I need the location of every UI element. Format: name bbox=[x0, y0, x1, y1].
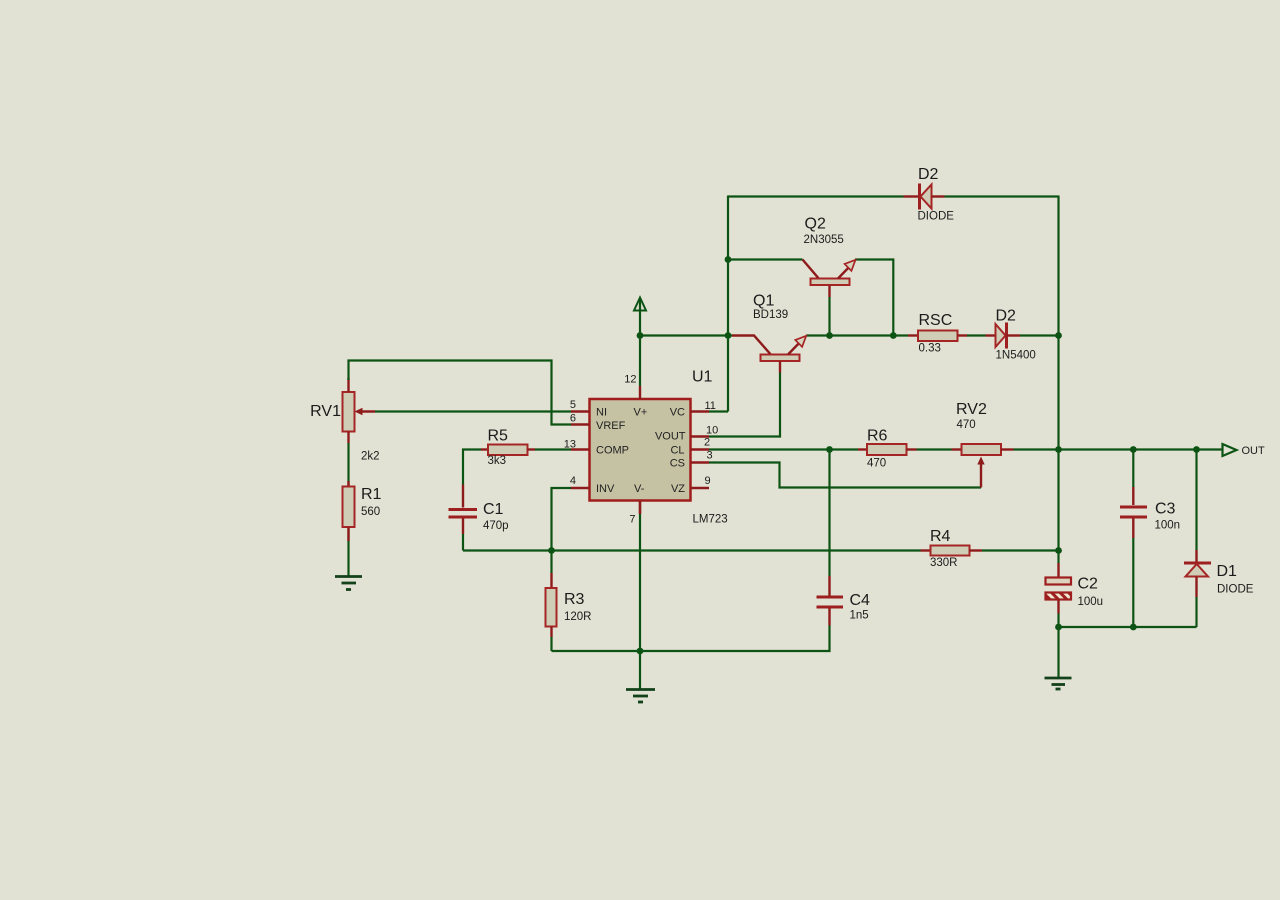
pin 5 stub bbox=[570, 399, 590, 412]
resistor R4 bbox=[921, 528, 983, 569]
pin 9 stub bbox=[691, 475, 711, 488]
svg-text:C2: C2 bbox=[1078, 576, 1099, 593]
svg-text:VREF: VREF bbox=[596, 420, 626, 432]
svg-text:1N5400: 1N5400 bbox=[996, 350, 1036, 362]
svg-text:11: 11 bbox=[705, 400, 716, 412]
wire VOUT to Q1 base bbox=[709, 373, 780, 437]
svg-text:100n: 100n bbox=[1155, 520, 1181, 532]
svg-text:COMP: COMP bbox=[596, 445, 629, 457]
svg-text:D2: D2 bbox=[996, 308, 1017, 325]
svg-text:R3: R3 bbox=[564, 591, 585, 608]
svg-text:DIODE: DIODE bbox=[1217, 584, 1254, 596]
wire mid row bbox=[463, 549, 1059, 551]
capacitor C2 bbox=[1046, 563, 1104, 614]
svg-text:D1: D1 bbox=[1217, 563, 1238, 580]
potentiometer RV2 bbox=[952, 401, 1014, 488]
pin 12 stub bbox=[624, 374, 640, 400]
capacitor C4 bbox=[817, 576, 871, 626]
svg-text:VC: VC bbox=[670, 407, 685, 419]
svg-text:RSC: RSC bbox=[919, 312, 953, 329]
svg-text:2N3055: 2N3055 bbox=[804, 234, 844, 246]
pin 6 stub bbox=[570, 413, 590, 425]
svg-text:U1: U1 bbox=[692, 369, 713, 386]
wire left vertical rail bbox=[727, 196, 729, 412]
wire CS to RV2 wiper bbox=[709, 463, 981, 488]
wire top rail to D2 bbox=[728, 195, 1059, 197]
svg-text:7: 7 bbox=[629, 514, 635, 526]
svg-text:VOUT: VOUT bbox=[655, 431, 686, 443]
wire CL output row bbox=[709, 448, 1223, 450]
power flag V+ bbox=[634, 298, 646, 336]
wire Q2 base row bbox=[728, 258, 803, 260]
wire RV1 to R1 to ground bbox=[347, 443, 349, 576]
wire bottom row bbox=[552, 626, 830, 652]
IC U1 LM723 bbox=[590, 369, 728, 526]
wire bottom right row bbox=[1059, 626, 1197, 628]
svg-text:R1: R1 bbox=[361, 486, 382, 503]
svg-text:NI: NI bbox=[596, 407, 607, 419]
svg-text:560: 560 bbox=[361, 506, 380, 518]
svg-text:5: 5 bbox=[570, 399, 576, 411]
resistor R5 bbox=[481, 428, 535, 468]
svg-text:1n5: 1n5 bbox=[850, 610, 869, 622]
svg-text:C1: C1 bbox=[483, 501, 504, 518]
terminal OUT bbox=[1223, 444, 1266, 457]
diode D2 (top) bbox=[904, 166, 955, 223]
svg-text:3k3: 3k3 bbox=[488, 455, 507, 467]
pin 10 stub bbox=[691, 425, 719, 437]
svg-text:10: 10 bbox=[706, 425, 718, 437]
svg-text:470p: 470p bbox=[483, 520, 509, 532]
svg-text:DIODE: DIODE bbox=[918, 211, 955, 223]
svg-text:4: 4 bbox=[570, 475, 576, 487]
svg-text:RV1: RV1 bbox=[310, 403, 341, 420]
resistor R1 bbox=[343, 481, 382, 541]
svg-text:INV: INV bbox=[596, 483, 615, 495]
svg-text:R4: R4 bbox=[930, 528, 951, 545]
wire INV down to mid row bbox=[552, 488, 572, 551]
svg-text:R5: R5 bbox=[488, 428, 509, 445]
potentiometer RV1 bbox=[310, 378, 379, 463]
resistor R6 bbox=[858, 428, 917, 470]
transistor Q2 bbox=[803, 216, 856, 336]
svg-text:CS: CS bbox=[670, 458, 685, 470]
svg-text:120R: 120R bbox=[564, 611, 592, 623]
svg-text:LM723: LM723 bbox=[693, 514, 728, 526]
svg-text:2k2: 2k2 bbox=[361, 451, 380, 463]
wire V- down to ground bbox=[639, 501, 641, 690]
pin 2 stub bbox=[691, 437, 711, 450]
svg-text:12: 12 bbox=[624, 374, 636, 386]
svg-text:R6: R6 bbox=[867, 428, 888, 445]
svg-text:V+: V+ bbox=[634, 407, 648, 419]
pin 4 stub bbox=[570, 475, 590, 488]
svg-text:9: 9 bbox=[705, 475, 711, 487]
svg-text:VZ: VZ bbox=[671, 483, 685, 495]
svg-text:CL: CL bbox=[670, 445, 684, 457]
svg-text:Q1: Q1 bbox=[753, 293, 774, 310]
svg-text:OUT: OUT bbox=[1242, 445, 1266, 457]
svg-text:2: 2 bbox=[704, 437, 710, 449]
svg-text:330R: 330R bbox=[930, 557, 958, 569]
ground (C2) bbox=[1045, 678, 1072, 689]
resistor R3 bbox=[546, 551, 592, 652]
pin 7 stub bbox=[629, 501, 640, 526]
resistor RSC bbox=[908, 312, 967, 355]
capacitor C3 bbox=[1120, 450, 1180, 628]
diode D2 (1N5400) bbox=[986, 308, 1036, 362]
pin 13 stub bbox=[564, 439, 590, 451]
wire RV1 top to VREF bbox=[349, 361, 572, 425]
svg-text:3: 3 bbox=[707, 450, 713, 462]
pin 11 stub bbox=[691, 400, 716, 412]
svg-text:C3: C3 bbox=[1155, 501, 1176, 518]
pin 3 stub bbox=[691, 450, 713, 463]
svg-text:C4: C4 bbox=[850, 592, 871, 609]
wire V+ to pin 12 bbox=[639, 336, 641, 387]
ground (V-) bbox=[626, 690, 655, 703]
svg-text:V-: V- bbox=[634, 483, 645, 495]
svg-text:6: 6 bbox=[570, 413, 576, 425]
capacitor C1 bbox=[449, 485, 509, 535]
wire right vertical rail bbox=[1057, 196, 1059, 564]
svg-text:RV2: RV2 bbox=[956, 401, 987, 418]
svg-text:100u: 100u bbox=[1078, 596, 1104, 608]
wire main emitter row bbox=[640, 334, 1059, 336]
transistor Q1 bbox=[732, 293, 806, 373]
wire CL row down to C4 bbox=[828, 450, 830, 577]
svg-text:D2: D2 bbox=[918, 166, 939, 183]
wire C2 to ground bbox=[1057, 614, 1059, 678]
svg-text:470: 470 bbox=[957, 419, 976, 431]
svg-text:Q2: Q2 bbox=[805, 216, 826, 233]
svg-text:470: 470 bbox=[867, 458, 886, 470]
wire RV1 wiper to NI bbox=[375, 410, 571, 412]
junction node dots bbox=[548, 256, 1200, 654]
wire Q2 emitter run bbox=[855, 260, 893, 336]
svg-text:0.33: 0.33 bbox=[919, 343, 941, 355]
diode D1 bbox=[1184, 450, 1254, 628]
ground (R1) bbox=[335, 577, 362, 590]
wire COMP branch bbox=[463, 450, 571, 485]
wire C1 to mid row bbox=[462, 534, 464, 551]
wire VC to rail bbox=[709, 410, 728, 412]
svg-text:BD139: BD139 bbox=[753, 309, 788, 321]
